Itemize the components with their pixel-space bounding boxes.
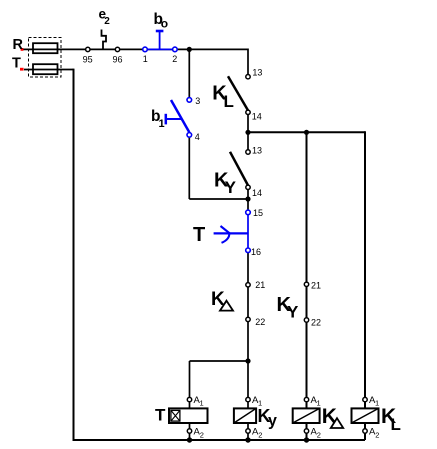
- svg-text:1: 1: [375, 399, 379, 408]
- svg-text:y: y: [268, 413, 277, 430]
- svg-text:15: 15: [253, 208, 263, 218]
- svg-text:21: 21: [255, 280, 265, 290]
- svg-text:2: 2: [104, 16, 110, 27]
- svg-text:2: 2: [375, 430, 379, 439]
- svg-text:L: L: [391, 415, 401, 434]
- svg-text:2: 2: [317, 430, 321, 439]
- svg-text:Y: Y: [287, 303, 299, 322]
- svg-text:1: 1: [159, 118, 165, 130]
- svg-text:4: 4: [195, 132, 200, 142]
- svg-text:2: 2: [172, 54, 177, 64]
- svg-text:L: L: [224, 92, 234, 111]
- svg-text:2: 2: [258, 430, 262, 439]
- svg-text:1: 1: [200, 399, 204, 408]
- svg-text:21: 21: [311, 281, 321, 291]
- svg-text:16: 16: [251, 247, 261, 257]
- svg-text:13: 13: [252, 145, 262, 155]
- svg-text:96: 96: [113, 55, 123, 65]
- svg-text:o: o: [161, 17, 168, 31]
- svg-text:1: 1: [143, 54, 148, 64]
- svg-text:1: 1: [258, 399, 262, 408]
- svg-text:T: T: [193, 224, 205, 246]
- svg-text:13: 13: [252, 67, 262, 77]
- svg-text:14: 14: [252, 188, 262, 198]
- svg-text:Y: Y: [225, 178, 237, 197]
- svg-text:R: R: [13, 37, 24, 53]
- svg-text:T: T: [155, 406, 166, 425]
- svg-text:14: 14: [252, 111, 262, 121]
- svg-text:T: T: [12, 56, 21, 72]
- svg-text:2: 2: [200, 430, 204, 439]
- svg-text:22: 22: [255, 317, 265, 327]
- svg-text:1: 1: [317, 399, 321, 408]
- svg-text:22: 22: [311, 318, 321, 328]
- svg-text:3: 3: [195, 96, 200, 106]
- svg-text:95: 95: [83, 55, 93, 65]
